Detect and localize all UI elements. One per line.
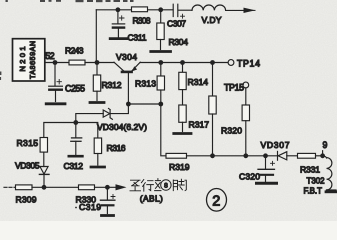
resistor R243 [69, 60, 85, 65]
svg-text:R320: R320 [221, 126, 242, 136]
ground (R317) [174, 132, 191, 135]
text: to flyback pin 8 (Chinese) [130, 179, 161, 192]
capacitor C320 [265, 156, 267, 169]
svg-text:C311: C311 [128, 33, 147, 43]
node: R312/top-rail junction [95, 60, 100, 65]
svg-text:R315: R315 [17, 138, 39, 148]
resistor R314 [180, 60, 185, 65]
svg-text:VD304(6.2V): VD304(6.2V) [97, 122, 147, 132]
svg-text:9: 9 [323, 140, 328, 150]
resistor R304 [160, 10, 162, 23]
resistor R308 [132, 7, 148, 12]
svg-text:R243: R243 [65, 46, 84, 56]
svg-text:C307: C307 [167, 18, 186, 28]
zener VD304 [76, 114, 103, 123]
resistor R309 [16, 185, 33, 190]
ground (R316) [91, 166, 105, 169]
node: C312 junction [73, 120, 78, 125]
svg-text:T302: T302 [307, 177, 325, 186]
wire V304 base down to base node [127, 73, 129, 104]
svg-text:R314: R314 [188, 77, 209, 87]
wire base node [128, 103, 160, 105]
svg-text:F.B.T: F.B.T [304, 186, 323, 195]
diode VD305 [40, 167, 48, 175]
wire: top rail right of C307 [179, 9, 193, 11]
svg-text:C312: C312 [64, 161, 84, 171]
wire: top rail [96, 9, 173, 11]
svg-text:C320: C320 [239, 172, 260, 182]
svg-text:V.DY: V.DY [202, 15, 222, 25]
svg-text:R316: R316 [107, 143, 126, 153]
svg-text:V304: V304 [116, 52, 137, 62]
wire V304 emitter to TP14 [140, 62, 228, 64]
resistor R320 [210, 60, 215, 65]
ground (C311) [110, 37, 127, 40]
vertical wire from top rail down to pin52 wire [95, 10, 97, 63]
ground (T302) [326, 190, 337, 193]
svg-text:52: 52 [45, 51, 55, 61]
svg-text:C319: C319 [79, 202, 101, 212]
resistor R313 [158, 60, 163, 65]
ground (R304) [151, 50, 171, 53]
svg-text:(ABL): (ABL) [140, 194, 163, 204]
resistor R317 [179, 105, 186, 122]
svg-text:TP15: TP15 [224, 83, 244, 93]
wire R330 to arrow [95, 186, 117, 188]
wire R319 to VD307 [187, 155, 278, 157]
node: C320 junction [263, 153, 268, 158]
IC N201 TA8659AN [13, 39, 45, 81]
resistor R331 [298, 153, 316, 158]
svg-text:VD305: VD305 [15, 160, 40, 170]
capacitor C307 [173, 4, 178, 16]
node: TP15 chain bottom [243, 153, 248, 158]
wire pin 52 to R243 [45, 62, 69, 64]
test point TP14 [228, 60, 234, 66]
node: base node left [126, 102, 131, 107]
wire R331 to pin9 [316, 155, 323, 157]
svg-text:VD307: VD307 [261, 140, 290, 150]
marker: circled 2 [207, 189, 227, 212]
wire VD307 to R331 [287, 155, 298, 157]
svg-text:R317: R317 [189, 120, 210, 130]
capacitor C255 (electrolytic) [54, 63, 56, 87]
ground (C255) [46, 102, 65, 105]
svg-text:R308: R308 [133, 16, 151, 26]
inductor T302 F.B.T [323, 156, 327, 158]
circled 8 [161, 180, 171, 190]
svg-text:R331: R331 [300, 164, 320, 174]
wire R309 to R330 [32, 186, 79, 188]
bottom wire (ABL line) [4, 186, 16, 188]
pin 9 terminal [320, 153, 325, 158]
svg-text:C255: C255 [65, 84, 85, 94]
ground (R312) [90, 101, 104, 104]
node: R304 junction on top rail [158, 7, 163, 12]
node: C255 junction [53, 60, 58, 65]
inductor V.DY [192, 5, 226, 10]
node: C311 junction on top rail [116, 7, 121, 12]
svg-text:R304: R304 [169, 37, 189, 47]
resistor R330 [79, 185, 95, 190]
diode VD307 [278, 152, 287, 160]
resistor R319 [166, 153, 187, 158]
wire R315/C312/R316 net [44, 123, 98, 139]
wire base node down to R319 [161, 104, 166, 156]
svg-text:TP14: TP14 [237, 58, 260, 68]
resistor R315 [40, 138, 47, 153]
capacitor C311 (electrolytic) [117, 10, 119, 24]
capacitor C312 [75, 123, 77, 138]
svg-text:8: 8 [164, 183, 168, 190]
svg-text:R319: R319 [169, 162, 190, 172]
node: C319 junction [105, 185, 110, 190]
resistor R312 [96, 63, 98, 76]
ground (C319) [102, 214, 114, 217]
node: base node right [158, 102, 163, 107]
test point TP15 [243, 82, 249, 88]
ground (C320) [257, 182, 277, 185]
wire R243 to V304 collector [85, 62, 114, 64]
capacitor C319 [106, 187, 108, 200]
ground (C312) [69, 155, 83, 158]
resistor R316 [94, 138, 101, 154]
svg-text:TA8659AN: TA8659AN [30, 41, 37, 79]
svg-text:R312: R312 [102, 80, 122, 90]
node: VD305 bottom [42, 185, 47, 190]
node: R320 bottom [210, 153, 215, 158]
resistor (TP15 chain) [245, 88, 247, 105]
svg-text:R309: R309 [16, 194, 37, 204]
svg-text:2: 2 [212, 193, 220, 209]
wire with arrow (to deflection yoke) [226, 9, 244, 11]
svg-text:R313: R313 [135, 79, 156, 89]
arrow to ABL [116, 184, 127, 190]
